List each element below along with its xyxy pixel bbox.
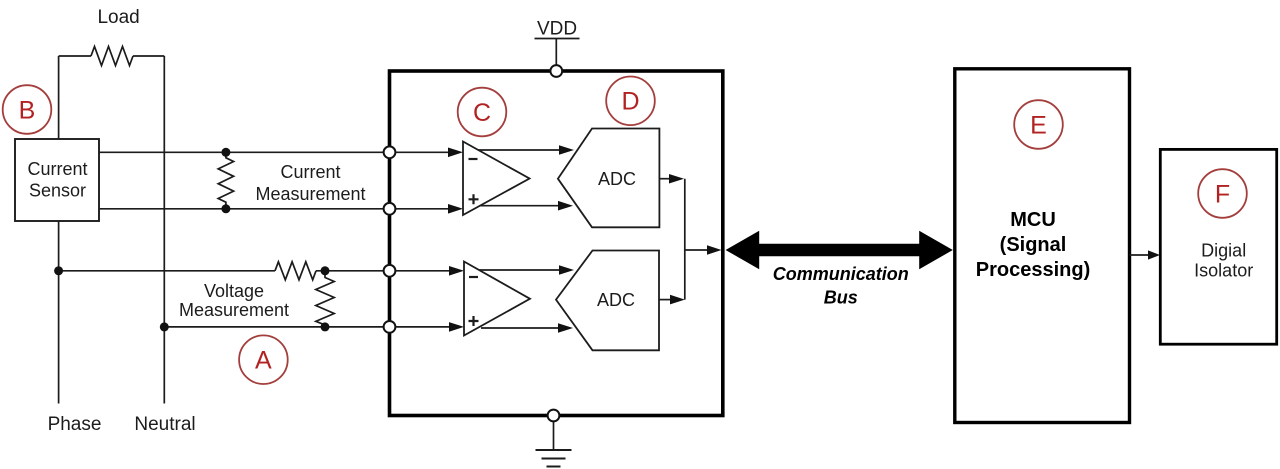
VDD supply symbol [535, 19, 580, 66]
svg-text:Isolator: Isolator [1194, 261, 1253, 281]
svg-text:Bus: Bus [824, 288, 858, 308]
op-amp U2 minus pin label [469, 276, 478, 278]
svg-text:D: D [621, 88, 639, 116]
callout circle D [606, 77, 655, 126]
wire: arrow into op-amp U2 plus [396, 326, 451, 328]
terminal: ground pin on AFE box [548, 410, 560, 422]
voltage divider series resistor [275, 262, 316, 280]
svg-text:Measurement: Measurement [255, 184, 365, 204]
wire: neutral vertical line [163, 56, 165, 404]
wire: current measurement bottom [99, 208, 384, 210]
wire: ADC1 output arrow [659, 178, 670, 180]
svg-text:Measurement: Measurement [179, 300, 289, 320]
svg-text:(Signal: (Signal [1000, 234, 1067, 256]
node: junction dot divider top [321, 266, 330, 275]
node: junction dot bottom of burden resistor [221, 204, 230, 213]
callout circle E [1014, 100, 1063, 149]
callout circle F [1198, 169, 1247, 218]
svg-text:E: E [1030, 111, 1047, 139]
wire: op-amp U2 out bottom to ADC2 [481, 327, 558, 329]
callout circle B [3, 85, 52, 134]
callout circle A [239, 335, 288, 384]
svg-text:VDD: VDD [537, 19, 577, 40]
svg-text:Sensor: Sensor [29, 181, 86, 201]
svg-text:ADC: ADC [598, 169, 636, 189]
ground [536, 421, 572, 466]
svg-text:C: C [473, 99, 491, 127]
burden resistor (current measurement shunt) [218, 152, 233, 209]
AFE box (analog front end) [390, 71, 723, 416]
callout circle C [458, 88, 507, 137]
wire: phase vertical upper (loop left down to current sensor) [58, 56, 60, 139]
MCU block (callout E) [955, 69, 1130, 423]
svg-text:A: A [255, 347, 272, 375]
terminal: voltage+ input pin [384, 265, 396, 277]
op-amp U2 (PGA) [464, 262, 530, 336]
wire: op-amp U1 out top to ADC1 [478, 149, 559, 151]
resistor (load) [91, 47, 133, 66]
wire: op-amp U2 out top to ADC2 [480, 269, 560, 271]
svg-text:Current: Current [27, 159, 87, 179]
voltage divider shunt resistor [316, 271, 334, 327]
node: junction dot divider bottom [321, 322, 330, 331]
terminal: current+ input pin [384, 146, 396, 158]
digital isolator block (callout F) [1160, 149, 1276, 344]
svg-text:Phase: Phase [48, 414, 102, 435]
terminal: VDD pin on AFE box [550, 65, 562, 77]
svg-text:Communication: Communication [773, 264, 909, 284]
svg-text:MCU: MCU [1010, 209, 1056, 231]
wire: MCU to digital isolator arrow [1130, 254, 1149, 256]
svg-text:Neutral: Neutral [134, 414, 195, 435]
communication bus double arrow [726, 231, 953, 269]
op-amp U1 minus pin label [469, 158, 478, 160]
wire: arrow into op-amp U2 minus [396, 270, 451, 272]
terminal: voltage- input pin [384, 321, 396, 333]
wire: ADC2 output arrow [659, 299, 670, 301]
wire: current measurement top [99, 151, 384, 153]
wire: voltage measurement top left [59, 270, 275, 272]
wire: arrow into op-amp U1 minus [396, 151, 450, 153]
wire: ADC output bus vertical [684, 179, 686, 300]
svg-text:ADC: ADC [597, 290, 635, 310]
op-amp U2 plus pin label [469, 316, 479, 326]
wire: op-amp U1 out bottom to ADC1 [480, 205, 558, 207]
wire: voltage measurement top right [316, 270, 384, 272]
ADC2 [556, 251, 659, 351]
node: junction dot phase tap [54, 266, 63, 275]
op-amp U1 plus pin label [469, 194, 479, 204]
wire: load loop left segment [59, 55, 91, 57]
svg-text:Current: Current [280, 162, 340, 182]
wire: phase vertical lower (sensor to bottom) [58, 221, 60, 404]
svg-text:F: F [1215, 180, 1230, 208]
wire: load loop right segment [133, 55, 164, 57]
node: junction dot neutral tap [160, 322, 169, 331]
wire: voltage measurement bottom [164, 326, 383, 328]
svg-text:Processing): Processing) [976, 259, 1090, 281]
current sensor block [15, 139, 99, 221]
terminal: current- input pin [384, 203, 396, 215]
wire: bus tap to AFE box edge [685, 249, 707, 251]
wire: arrow into op-amp U1 plus [396, 208, 450, 210]
svg-text:Digial: Digial [1201, 241, 1246, 261]
svg-text:B: B [19, 96, 36, 124]
svg-text:Load: Load [97, 7, 139, 28]
node: junction dot top of burden resistor [221, 148, 230, 157]
svg-text:Voltage: Voltage [204, 281, 264, 301]
op-amp U1 (PGA, callout C) [463, 142, 530, 216]
ADC1 (callout D) [558, 129, 660, 228]
